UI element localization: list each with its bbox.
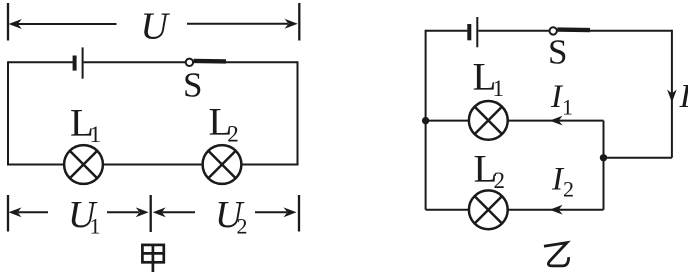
wire node A down-corner to lamp L2 (branch 2) xyxy=(426,209,469,211)
wire lamp L2 to branch corner xyxy=(508,209,604,211)
lamp L1 circle (loop 乙) xyxy=(469,101,508,140)
svg-text:2: 2 xyxy=(237,214,248,239)
wire battery to switch (loop 乙) xyxy=(478,30,550,32)
node B junction dot xyxy=(600,154,607,161)
dimension line U left segment xyxy=(18,23,117,25)
svg-text:1: 1 xyxy=(493,76,505,101)
svg-text:2: 2 xyxy=(227,121,239,146)
wire battery to switch xyxy=(84,61,187,63)
lamp L2 circle (loop 乙) xyxy=(469,190,508,229)
dimension tick middle (U1/U2) xyxy=(150,195,152,232)
node A junction dot xyxy=(422,117,429,124)
switch S2 blade xyxy=(557,27,590,32)
svg-text:1: 1 xyxy=(90,214,101,239)
wire node A to lamp L1 (branch 1) xyxy=(426,120,469,122)
wire switch to corner xyxy=(226,61,298,63)
lamp L1 cross xyxy=(70,151,97,178)
svg-text:U: U xyxy=(141,6,171,48)
battery B2 long thin plate xyxy=(476,17,478,47)
wire right side of loop 甲 xyxy=(297,61,299,165)
dimension tick right (U2) xyxy=(298,195,300,232)
lamp L2 cross xyxy=(208,151,235,178)
battery B2 short thick plate xyxy=(467,24,471,40)
lamp L2 circle xyxy=(203,145,242,184)
svg-text:S: S xyxy=(183,66,202,105)
lamp L1 cross (loop 乙) xyxy=(475,107,502,134)
caption 乙 xyxy=(544,243,569,266)
arrowhead U2 left xyxy=(153,207,166,217)
dimension tick left (U) xyxy=(7,3,9,41)
arrowhead current I2 (left) xyxy=(550,205,563,215)
wire bottom-left to lamp L1 xyxy=(8,164,64,166)
wire branch vertical xyxy=(603,121,605,210)
arrowhead U1 right xyxy=(136,207,149,217)
arrowhead current I1 (left) xyxy=(550,116,563,126)
wire switch to right corner (loop 乙) xyxy=(590,30,672,32)
svg-text:2: 2 xyxy=(494,168,506,193)
dimension line U2 left segment xyxy=(162,211,195,213)
wire link right to node B xyxy=(604,157,672,159)
lamp L2 cross (loop 乙) xyxy=(475,196,502,223)
switch S2 pivot circle xyxy=(550,27,557,34)
wire left side of loop 甲 xyxy=(7,61,9,165)
svg-text:I: I xyxy=(679,78,688,115)
arrowhead U2 right xyxy=(284,207,297,217)
svg-text:1: 1 xyxy=(90,122,102,147)
arrowhead U1 left xyxy=(9,207,22,217)
dimension tick left (U1) xyxy=(7,195,9,232)
switch S blade xyxy=(194,59,226,64)
caption 甲 xyxy=(142,245,163,272)
dimension tick right (U) xyxy=(298,3,300,41)
dimension line U1 right segment xyxy=(107,211,139,213)
wire top of loop 乙 left xyxy=(426,30,468,32)
svg-text:S: S xyxy=(548,33,567,72)
arrowhead U left xyxy=(9,19,22,29)
wire lamp L1 to lamp L2 xyxy=(103,164,203,166)
arrowhead U right xyxy=(285,19,298,29)
wire right side of loop 乙 xyxy=(671,30,673,158)
wire left side of loop 乙 xyxy=(425,30,427,210)
arrowhead current I (down) xyxy=(667,90,677,103)
svg-text:2: 2 xyxy=(563,177,574,202)
battery B1 short thick plate xyxy=(73,56,77,71)
dimension line U right segment xyxy=(187,23,288,25)
wire lamp L1 to branch corner xyxy=(508,120,604,122)
battery B1 long thin plate xyxy=(82,47,84,78)
wire top-left of loop 甲 xyxy=(8,61,73,63)
wire lamp L2 to corner xyxy=(241,164,297,166)
dimension line U1 left segment xyxy=(18,211,48,213)
lamp L1 circle xyxy=(64,145,103,184)
switch S pivot circle xyxy=(186,59,193,66)
dimension line U2 right segment xyxy=(255,211,287,213)
svg-text:1: 1 xyxy=(562,95,573,120)
